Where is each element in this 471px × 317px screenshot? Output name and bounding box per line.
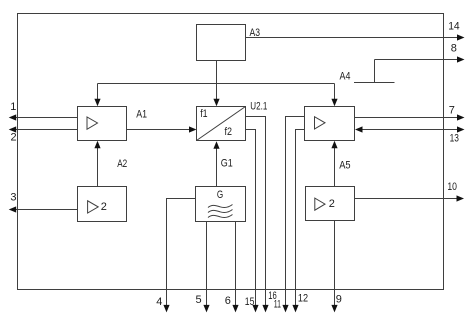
node 15 xyxy=(245,296,255,308)
wire: port 1 xyxy=(9,114,78,120)
wire: A2 to A1 xyxy=(94,141,100,187)
svg-text:9: 9 xyxy=(336,293,342,305)
node 9 xyxy=(336,293,342,305)
node 3 xyxy=(10,192,16,204)
wire: port 13 xyxy=(355,126,465,132)
wire: port 6 xyxy=(232,222,238,313)
svg-text:A4: A4 xyxy=(340,71,351,83)
node 6 xyxy=(225,295,231,307)
wire: port 11 xyxy=(282,117,304,313)
svg-text:4: 4 xyxy=(156,296,162,308)
wire: port 12 xyxy=(292,130,304,313)
wire: branch into A1 top xyxy=(94,84,100,107)
amplifier x2 block xyxy=(306,187,355,221)
node 2 xyxy=(11,132,17,144)
svg-text:3: 3 xyxy=(10,192,16,204)
node 16 xyxy=(268,290,277,302)
wire: port 9 xyxy=(331,221,337,313)
amplifier A2 xyxy=(78,158,128,221)
node 4 xyxy=(156,296,162,308)
wire: port 3 xyxy=(9,206,78,212)
node 8 xyxy=(451,42,457,54)
wire: port 2 xyxy=(9,126,78,132)
svg-text:f1: f1 xyxy=(200,108,207,120)
node 1 xyxy=(10,101,16,113)
svg-text:15: 15 xyxy=(245,296,255,308)
wire: port 7 xyxy=(355,114,465,120)
node 10 xyxy=(447,181,457,193)
node 12 xyxy=(298,292,308,304)
net A4 bar xyxy=(340,60,395,83)
converter U2.1 xyxy=(197,101,268,141)
svg-text:10: 10 xyxy=(447,181,457,193)
node 5 xyxy=(196,294,202,306)
svg-text:2: 2 xyxy=(329,198,335,210)
wire: A3 output to port 14 xyxy=(246,34,465,40)
svg-text:11: 11 xyxy=(274,299,281,311)
svg-text:f2: f2 xyxy=(225,126,233,138)
wire: port 4 xyxy=(163,199,195,313)
generator G xyxy=(196,187,246,222)
svg-text:A2: A2 xyxy=(117,158,127,170)
wire: port 16 xyxy=(246,117,269,313)
svg-text:U2.1: U2.1 xyxy=(250,101,267,113)
svg-text:7: 7 xyxy=(449,105,455,117)
svg-text:A1: A1 xyxy=(136,109,147,121)
block A3 xyxy=(197,25,261,61)
svg-text:5: 5 xyxy=(196,294,202,306)
node 7 xyxy=(449,105,455,117)
svg-text:G1: G1 xyxy=(221,157,233,169)
wire: x2 block to A5 xyxy=(331,141,337,187)
svg-text:G: G xyxy=(217,189,223,201)
node 13 xyxy=(450,132,459,144)
wire G1: G to U2.1 xyxy=(213,141,232,186)
amplifier A5 xyxy=(305,107,355,172)
wire: port 15 xyxy=(246,130,259,313)
wire: port 5 xyxy=(203,222,209,313)
wire: distribution line xyxy=(98,83,335,85)
svg-text:14: 14 xyxy=(448,21,460,33)
wire: A4 to port 8 xyxy=(375,56,465,62)
node 14 xyxy=(448,21,460,33)
wire: A1 output to U2.1 xyxy=(127,126,197,132)
svg-text:13: 13 xyxy=(450,132,459,144)
svg-text:6: 6 xyxy=(225,295,231,307)
svg-text:12: 12 xyxy=(298,292,308,304)
svg-text:2: 2 xyxy=(11,132,17,144)
wire: port 10 xyxy=(355,195,465,201)
device boundary box xyxy=(18,14,444,290)
node 11 xyxy=(274,299,281,311)
svg-text:2: 2 xyxy=(101,201,107,213)
wire: branch into A5 top xyxy=(331,84,337,107)
wire: A3 down to U2.1 xyxy=(213,61,219,107)
svg-text:1: 1 xyxy=(10,101,16,113)
svg-text:8: 8 xyxy=(451,42,457,54)
amplifier A1 xyxy=(78,107,148,141)
svg-text:A5: A5 xyxy=(339,159,350,171)
